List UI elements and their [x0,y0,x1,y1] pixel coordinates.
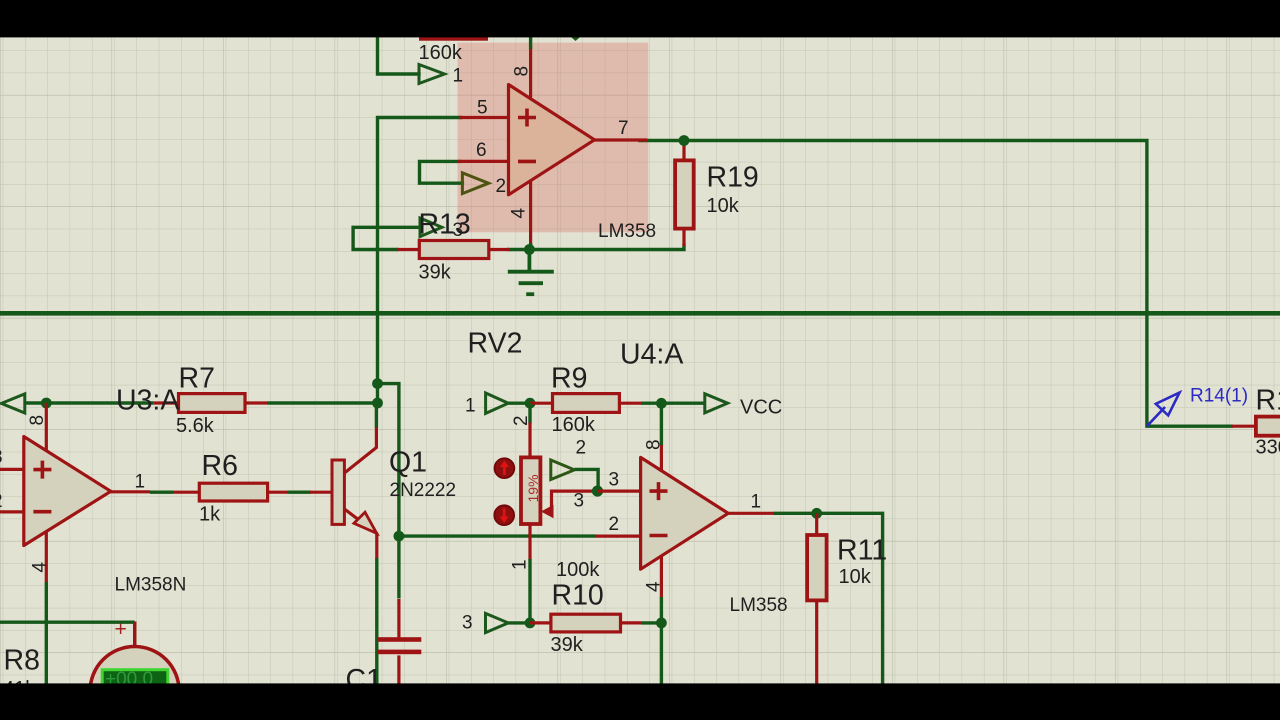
svg-text:2: 2 [496,176,507,197]
wire: output to right and down [773,513,882,690]
svg-text:1: 1 [465,396,476,417]
wire: pin4 green stub into ground junction [529,243,532,250]
wire: rail branch over to Q1 emitter rail [378,384,399,536]
svg-text:2: 2 [576,438,587,459]
wire: terminal 1 to R9 [508,402,530,405]
svg-text:2: 2 [609,514,620,535]
junction at R10 right / U4 pin4 [656,618,667,629]
terminal arrow (far left, points left) [1,394,24,413]
junction at pin 3 node [592,486,603,497]
svg-text:3: 3 [0,447,3,468]
svg-text:1: 1 [510,559,531,570]
svg-text:100k: 100k [556,559,600,581]
svg-text:R9: R9 [551,363,587,395]
transistor Q1 body bar [332,460,344,524]
wire: emitter down to bottom edge [375,558,378,690]
capacitor C1 bottom pin [397,655,400,690]
op-amp U4:A plus mark [650,482,668,500]
voltage probe R14(1) arrowhead [1156,393,1180,416]
ground symbol [508,250,554,295]
RV2 decrement button (red circle, down arrow) [494,505,514,525]
terminal arrow 2 (to pin 3 net) [551,460,575,480]
resistor R7 [154,401,268,404]
junction at R9 left / RV2 top [525,398,536,409]
svg-text:7: 7 [618,118,629,139]
op-amp U3:A body [24,437,111,546]
svg-text:39k: 39k [419,262,452,284]
potentiometer RV2 bottom pin [528,524,531,560]
wire: pin 4 to R10 junction and bottom [660,597,663,690]
svg-text:R11: R11 [837,535,887,567]
resistor R10 [530,621,642,624]
wire: R6 to Q1 base [288,491,311,494]
op-amp U3:A input pin stubs [0,469,24,512]
svg-text:R19: R19 [707,162,759,194]
svg-text:8: 8 [644,439,665,450]
svg-text:6: 6 [476,140,487,161]
pin 5 of op-amp U2 [461,116,509,119]
svg-text:5.6k: 5.6k [176,415,215,437]
svg-text:U3:A: U3:A [116,385,179,417]
svg-text:4: 4 [30,562,51,573]
capacitor C1 top pin [397,599,400,637]
op-amp U4:A body [641,457,729,569]
top black letterbox bar [0,0,1280,37]
wire: from top edge down to terminal 1 (top left) [378,30,420,74]
wire: U4 pin8 from VCC junction [660,403,663,446]
svg-text:10k: 10k [707,195,740,217]
resistor R19 [682,141,685,247]
svg-text:8: 8 [27,415,48,426]
svg-text:1: 1 [453,66,464,87]
wire: terminal 3 to R10 [508,621,530,624]
wire: bottom-left common rail [0,621,135,624]
svg-text:3: 3 [462,613,473,634]
op-amp U3:A output pin 1 [110,490,150,493]
transistor Q1 base pin [310,491,332,494]
wire: RV2 top pin from junction [528,403,531,423]
op-amp U4:A minus mark [650,534,668,538]
resistor R6 [174,491,289,494]
resistor R13 [397,248,509,251]
terminal arrow 2 (at op-amp pin 6) [462,173,488,194]
resistor R11 [815,513,818,690]
junction at U3:A pin8 [41,398,52,409]
svg-text:RV2: RV2 [468,328,523,360]
junction at pin7 / R19 [679,135,690,146]
op-amp U4:A pin 8 [660,445,663,472]
svg-text:4: 4 [644,581,665,592]
junction at Q1 emitter rail / minus input net [394,531,405,542]
op-amp U3:A pin 8 [45,403,48,451]
capacitor C1 plates [378,637,422,642]
wire: R19 bottom to ground junction [529,246,684,250]
wire: R10 right to pin4 junction [641,621,661,624]
pin 7 of op-amp U2 [592,138,646,141]
wire: minus input long segment [596,534,618,537]
svg-text:1k: 1k [199,504,221,526]
wire: green stub of pin8 at top bar [529,30,532,49]
op-amp U3:A plus mark [33,461,51,479]
wire: terminal 2 jog to pin3 junction [574,469,598,491]
svg-text:1: 1 [135,472,146,493]
wire: pin5 net from long vertical rail [378,118,461,404]
resistor R14 body (clipped at right edge) [1256,417,1280,436]
op-amp U3:A pin 4 [45,532,48,584]
voltmeter display [102,670,168,696]
wire: pin4 down to bottom [45,582,48,690]
wire: R7 right pin to vertical rail [268,401,378,404]
junction at R10 left [525,618,536,629]
pin 8 of op-amp U2 [529,49,532,97]
svg-text:R1: R1 [1256,385,1280,417]
terminal arrow 3 (at R10) [486,613,509,632]
svg-text:LM358: LM358 [598,221,656,242]
svg-text:Q1: Q1 [389,447,427,479]
svg-text:R7: R7 [179,363,215,395]
svg-text:LM358N: LM358N [115,575,187,596]
junction at R7 / rail [372,398,383,409]
op-amp U3:A minus mark [33,510,51,514]
wire: main horizontal bus across sheet [0,311,1280,316]
potentiometer RV2 body [521,457,540,524]
transistor Q1 emitter [344,509,376,559]
svg-text:1: 1 [751,492,762,513]
op-amp U2 plus mark [518,109,536,127]
wire: terminal 3 loop at R13 [353,227,420,249]
RV2 increment button (red circle, up arrow) [495,458,515,478]
wire: R13 right pin to ground junction [509,248,530,251]
svg-text:8: 8 [512,66,533,77]
svg-text:2: 2 [511,415,532,426]
pin 4 of op-amp U2 [529,181,532,244]
op-amp U2 LM358 (selected) [509,85,595,195]
svg-text:+: + [115,618,127,641]
wire: pin6 jog to terminal 2 [420,161,463,183]
svg-text:LM358: LM358 [730,595,788,616]
voltmeter body [90,647,179,720]
svg-text:19%: 19% [525,474,541,502]
svg-text:2: 2 [0,491,3,512]
selection highlight box around op-amp U2 [458,43,649,233]
op-amp U4:A pin 2 [616,534,640,537]
op-amp U4:A pin 4 [660,557,663,598]
svg-text:5: 5 [477,98,488,119]
svg-text:R8: R8 [4,645,40,677]
svg-text:160k: 160k [419,42,463,64]
tiny green mark at top bar edge [571,37,580,41]
svg-text:160k: 160k [552,414,596,436]
wire: collector to junction [375,402,378,427]
svg-text:R13: R13 [419,209,471,241]
bottom black letterbox bar [0,683,1280,720]
svg-text:3: 3 [609,470,620,491]
pin 6 of op-amp U2 [460,160,509,163]
wire: left terminal to R7 [25,401,154,404]
potentiometer RV2 top pin [528,423,531,458]
resistor R18 (clipped at top, value 160k) [419,34,488,41]
resistor R9 [530,402,642,405]
op-amp U4:A output pin 1 [727,512,774,515]
op-amp U2 minus mark [518,160,536,164]
transistor Q1 collector [344,427,376,473]
wire: R9 right to VCC node [641,402,705,405]
svg-text:R10: R10 [552,580,604,612]
voltage probe R14(1) shaft [1147,407,1165,426]
op-amp U4:A pin 3 [598,490,641,493]
RV2 wiper arrow [541,505,554,518]
wire: output to R6 [150,491,174,494]
transistor Q1 emitter arrowhead [354,512,377,533]
svg-text:U4:A: U4:A [620,339,683,371]
wire: pin7 output net to right rail [640,141,1231,427]
wire: emitter rail down to C1 [397,536,400,598]
terminal arrow 1 (top) [419,65,445,84]
junction at VCC / U4 pin8 [656,398,667,409]
wire: RV2 bottom to R10 junction [528,559,531,623]
svg-text:3: 3 [574,491,585,512]
junction at ground node [524,244,535,255]
svg-text:VCC: VCC [740,397,782,419]
svg-text:2N2222: 2N2222 [390,480,457,501]
junction at rail branch [372,378,383,389]
resistor R14 right pin (into sheet edge) [1231,425,1256,428]
junction at R11 top [811,508,822,519]
power terminal VCC arrow [705,394,728,413]
svg-text:330: 330 [1256,437,1280,459]
terminal arrow 3 (at R13) [420,218,442,237]
terminal arrow 1 (at R9) [486,393,509,413]
svg-text:39k: 39k [551,634,584,656]
voltmeter plus pin [133,622,136,647]
svg-text:4: 4 [509,208,530,219]
svg-text:10k: 10k [839,566,872,588]
svg-text:R6: R6 [202,450,238,482]
wire: emitter rail junction to U4:A minus input [399,534,596,537]
RV2 wiper wire to pin 3 net [552,491,598,511]
svg-text:R14(1): R14(1) [1190,386,1248,407]
